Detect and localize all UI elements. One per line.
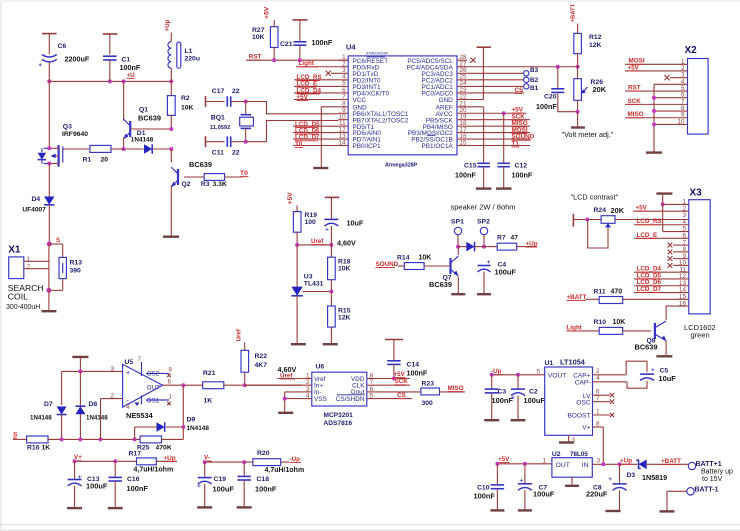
transistor Q7: [429, 247, 458, 295]
svg-text:LCD_E: LCD_E: [637, 232, 658, 239]
svg-text:OUT: OUT: [147, 384, 160, 391]
capacitor C1: [103, 34, 141, 81]
ground (BATT-1): [660, 510, 675, 512]
node Light (pin2): [296, 60, 338, 67]
node CS (pin23): [467, 87, 524, 94]
svg-text:2: 2: [27, 263, 31, 270]
svg-text:R24: R24: [594, 207, 607, 214]
svg-text:X3: X3: [690, 187, 703, 198]
svg-text:VOUT: VOUT: [548, 373, 566, 380]
svg-text:15: 15: [460, 139, 468, 146]
capacitor C12: [497, 113, 532, 188]
U4 pins: [338, 54, 467, 150]
svg-text:+5V: +5V: [628, 64, 640, 71]
ground (C2): [511, 419, 526, 421]
svg-text:OUT: OUT: [556, 462, 570, 469]
transistor Q1: [124, 81, 174, 149]
svg-text:CS: CS: [515, 87, 524, 94]
svg-text:+5V: +5V: [287, 192, 294, 205]
svg-text:100uF: 100uF: [86, 482, 108, 491]
svg-text:390: 390: [70, 268, 82, 275]
svg-text:20K: 20K: [611, 206, 625, 215]
svg-text:U2: U2: [552, 451, 561, 458]
node V+: [73, 454, 137, 463]
svg-text:COIL: COIL: [8, 292, 28, 302]
svg-text:BOOST: BOOST: [567, 413, 590, 420]
ground (C12): [496, 187, 512, 189]
ground (Q7): [451, 293, 465, 295]
svg-text:Q3: Q3: [63, 124, 72, 131]
ground (C18): [237, 506, 252, 508]
wire pin22 GND to bar: [467, 47, 491, 99]
svg-text:100nF: 100nF: [407, 369, 428, 378]
node +5V (U6 pin8): [377, 371, 410, 381]
node +BATT: [661, 458, 681, 465]
svg-text:+: +: [325, 227, 329, 234]
ground (C7): [518, 509, 532, 511]
resistor R11: [567, 289, 689, 304]
node LCD_D6 (X3 pin13): [634, 279, 689, 286]
svg-text:3.3K: 3.3K: [213, 181, 227, 188]
svg-text:1N4148: 1N4148: [187, 425, 210, 432]
ground (C8): [606, 510, 621, 512]
node -Up (R20): [290, 456, 302, 463]
svg-text:C12: C12: [515, 162, 528, 169]
svg-text:+: +: [197, 483, 201, 490]
svg-text:7: 7: [596, 395, 600, 402]
node LCD_D4 (pin6): [294, 87, 338, 94]
node -Up rail to U1: [490, 368, 545, 377]
svg-text:CAP-: CAP-: [575, 380, 591, 387]
capacitor C14: [385, 340, 428, 379]
ground (D8 top): [72, 357, 88, 372]
annotation LCD1602 green: [684, 323, 716, 340]
svg-text:22: 22: [232, 88, 240, 95]
svg-text:+: +: [608, 476, 612, 483]
capacitor C17: [206, 88, 246, 107]
shunt reference U3 TL431: [291, 245, 333, 344]
diode D1: [122, 130, 174, 154]
svg-text:T0: T0: [295, 141, 303, 148]
ground (X3 top): [656, 192, 672, 194]
node LCD_E (pin5): [294, 81, 338, 88]
svg-text:100nF: 100nF: [474, 492, 496, 501]
svg-text:12K: 12K: [338, 315, 351, 322]
svg-text:D7: D7: [44, 401, 53, 408]
svg-text:OS2: OS2: [147, 371, 160, 378]
svg-text:Q1: Q1: [139, 106, 148, 113]
diode (speaker): [458, 242, 484, 252]
wire X3 pin1/pin5 gnd: [661, 194, 689, 232]
svg-text:S: S: [56, 237, 60, 244]
capacitor C19: [197, 462, 234, 507]
wire X3 pin16 to Q8: [666, 306, 689, 320]
svg-text:220uF: 220uF: [586, 490, 608, 499]
svg-text:R1: R1: [83, 156, 92, 163]
ground (Q8): [656, 355, 672, 357]
wire GND pin8: [321, 107, 338, 168]
svg-text:+Up: +Up: [164, 19, 171, 31]
svg-text:C19: C19: [214, 476, 227, 483]
svg-text:VCC: VCC: [353, 97, 367, 104]
resistor R25: [137, 427, 183, 451]
node Uref (4.60V): [295, 238, 356, 247]
X2 pins: [677, 58, 685, 125]
svg-text:+5V: +5V: [264, 6, 271, 19]
wire pin21 AREF to C15: [467, 107, 484, 163]
node SCK (X2 pin7): [625, 98, 688, 105]
svg-text:5: 5: [370, 393, 374, 400]
svg-text:BATT+1: BATT+1: [696, 461, 722, 468]
node V-: [203, 455, 253, 465]
svg-text:+BATT: +BATT: [571, 3, 577, 22]
node RST: [246, 54, 348, 63]
op-amp U5 NE5534: [123, 359, 163, 420]
node B3 (pin26): [467, 67, 539, 76]
svg-text:470K: 470K: [156, 444, 172, 451]
ground (C15): [476, 187, 492, 189]
annotation speaker: [451, 203, 516, 212]
svg-text:2200uF: 2200uF: [65, 54, 90, 63]
svg-text:C2: C2: [529, 389, 538, 396]
node +5V (pin20): [467, 106, 526, 115]
svg-text:T1: T1: [512, 140, 520, 147]
node T0: [240, 170, 248, 177]
no-connect pin3: [326, 71, 339, 76]
svg-text:1: 1: [27, 256, 31, 263]
svg-text:speaker 2W / 8ohm: speaker 2W / 8ohm: [451, 203, 516, 212]
svg-text:Battery up: Battery up: [701, 469, 733, 476]
svg-text:SCK: SCK: [395, 378, 409, 385]
svg-text:R27: R27: [252, 27, 265, 34]
svg-text:IN: IN: [582, 462, 589, 469]
svg-text:4K7: 4K7: [255, 362, 268, 369]
wire +U rail: [47, 79, 173, 83]
wire X2 gnd pins 4,6,8,10: [652, 84, 688, 152]
wire pin27 to voltmeter: [467, 65, 580, 69]
svg-text:100uF: 100uF: [524, 396, 546, 405]
node MOSI (X2 pin1): [625, 58, 688, 65]
svg-text:"LCD contrast": "LCD contrast": [571, 193, 619, 202]
node MISO (pin18): [467, 120, 530, 127]
capacitor C13: [68, 461, 108, 508]
no-connect X2 pin3: [664, 75, 687, 80]
svg-text:ADS7816: ADS7816: [324, 420, 353, 427]
svg-text:R2: R2: [181, 95, 190, 102]
svg-text:X1: X1: [8, 245, 21, 256]
svg-text:4: 4: [306, 393, 310, 400]
regulator U2 78L05: [542, 451, 600, 477]
svg-text:20K: 20K: [593, 85, 607, 94]
svg-text:LT1054: LT1054: [560, 358, 586, 367]
ground (C4): [477, 293, 491, 295]
diode D8: [75, 371, 108, 439]
X3 pins: [679, 199, 687, 308]
svg-text:BC639: BC639: [138, 113, 161, 122]
svg-text:22: 22: [460, 93, 468, 100]
U1 OSC pin7 no-connect: [593, 395, 615, 404]
ground (C3): [484, 419, 499, 421]
capacitor C4: [478, 259, 517, 294]
svg-text:U1: U1: [545, 360, 554, 367]
svg-text:R21: R21: [203, 370, 216, 377]
diode D3 1N5819 schottky: [627, 460, 689, 483]
svg-text:100nF: 100nF: [512, 170, 533, 179]
node Uref (U6 pin1): [277, 365, 302, 379]
svg-text:GND: GND: [439, 97, 454, 104]
node LCD_E (X3 pin6): [634, 232, 689, 239]
svg-text:SOUND: SOUND: [376, 261, 399, 268]
svg-text:Light: Light: [567, 324, 583, 331]
svg-text:78L05: 78L05: [570, 451, 588, 458]
svg-text:2: 2: [596, 368, 600, 375]
svg-text:+5V: +5V: [636, 204, 648, 211]
svg-text:300-400uH: 300-400uH: [6, 304, 40, 311]
node +5V (pin7): [294, 94, 338, 101]
resistor R17: [129, 451, 178, 474]
resistor R14: [376, 255, 451, 270]
U5 pin2 wire: [101, 393, 123, 440]
svg-text:SCK: SCK: [628, 98, 642, 105]
svg-text:R22: R22: [255, 353, 268, 360]
svg-text:B1: B1: [530, 85, 539, 92]
node LCD_RS (X3 pin4): [634, 218, 689, 225]
svg-text:10uF: 10uF: [659, 374, 677, 383]
node LCD_D6 (pin12): [293, 128, 338, 135]
svg-text:12K: 12K: [589, 42, 602, 49]
svg-text:C14: C14: [407, 362, 420, 369]
svg-text:+Up: +Up: [526, 240, 538, 247]
ground (R26): [571, 112, 585, 128]
node LCD_D5 (X3 pin12): [634, 272, 689, 279]
svg-text:4: 4: [596, 375, 600, 382]
svg-text:+5V: +5V: [394, 371, 406, 378]
capacitor C18: [237, 462, 276, 507]
no-connect pin28: [470, 58, 475, 63]
node LCD_D4 (X3 pin11): [634, 266, 689, 273]
svg-text:MISO: MISO: [628, 111, 644, 118]
U5 pin7 stub: [138, 357, 142, 376]
svg-text:C10: C10: [477, 484, 490, 491]
transistor Q3 (P-MOSFET): [38, 81, 89, 166]
svg-text:7: 7: [342, 93, 346, 100]
U1 pin5: [537, 369, 541, 376]
transistor Q8: [635, 321, 667, 356]
charge pump U1 LT1054: [545, 358, 593, 436]
connector X2: [685, 45, 709, 134]
wire In-/VSS to ground: [283, 392, 303, 413]
svg-text:D3: D3: [627, 472, 636, 479]
node MOSI (pin17): [467, 127, 530, 134]
terminal BATT+1: [688, 461, 721, 470]
ground (Q2): [163, 235, 179, 237]
capacitor C21: [280, 20, 333, 60]
node S (coil node): [47, 237, 60, 247]
diode D4: [22, 164, 54, 245]
svg-text:2: 2: [110, 393, 114, 400]
capacitor C11: [206, 136, 246, 156]
inductor L1: [164, 19, 200, 81]
svg-text:RST: RST: [628, 84, 641, 91]
svg-text:47: 47: [511, 234, 519, 241]
op-amp U4 (ATmega328P MCU): [346, 43, 457, 169]
svg-text:100uF: 100uF: [533, 490, 555, 499]
svg-text:VSS: VSS: [314, 396, 327, 403]
svg-text:BQ1: BQ1: [211, 115, 225, 122]
node +U label: [127, 72, 136, 79]
svg-text:TL431: TL431: [304, 280, 324, 287]
svg-text:R7: R7: [497, 234, 506, 241]
transistor Q2: [171, 149, 178, 187]
svg-text:MISO: MISO: [448, 385, 464, 392]
svg-text:MCP3201: MCP3201: [324, 412, 354, 419]
resistor R2: [167, 81, 193, 129]
svg-text:B2: B2: [530, 77, 539, 84]
svg-text:10K: 10K: [252, 34, 265, 41]
resistor R27: [252, 6, 278, 60]
U5 pin1 OS1 stub: [146, 394, 173, 405]
capacitor C2: [511, 375, 545, 420]
svg-text:100nF: 100nF: [536, 102, 557, 111]
capacitor C7: [518, 464, 555, 511]
capacitor 10uF: [324, 197, 363, 245]
node LCD_D7 (pin13): [293, 134, 338, 141]
svg-text:3: 3: [597, 457, 601, 464]
resistor R23: [377, 381, 465, 407]
svg-text:R18: R18: [338, 259, 351, 266]
svg-text:R13: R13: [70, 259, 83, 266]
svg-text:+Up: +Up: [164, 455, 176, 462]
resistor R1: [64, 145, 124, 163]
connector X3: [689, 187, 710, 314]
wire opamp out to In+: [245, 384, 303, 386]
svg-text:R10: R10: [594, 319, 607, 326]
node MISO (U6 pin6): [448, 385, 464, 392]
svg-text:NE5534: NE5534: [126, 411, 154, 420]
annotation volt meter adj: [562, 130, 614, 139]
resistor R19: [287, 192, 317, 245]
svg-text:100nF: 100nF: [312, 38, 333, 47]
svg-text:1N4148: 1N4148: [30, 414, 52, 421]
svg-text:+Up: +Up: [620, 458, 632, 465]
svg-text:C17: C17: [212, 88, 225, 95]
svg-text:-: -: [126, 395, 129, 404]
svg-text:+BATT: +BATT: [567, 294, 587, 301]
svg-text:C15: C15: [464, 162, 477, 169]
svg-text:1N4148: 1N4148: [86, 414, 108, 421]
svg-text:10K: 10K: [338, 266, 351, 273]
svg-text:470: 470: [611, 289, 623, 296]
U5 pin4 stub: [126, 396, 141, 412]
capacitor C5 with loop: [593, 361, 677, 388]
svg-text:PB1/OC1A: PB1/OC1A: [422, 143, 454, 150]
svg-text:+: +: [126, 370, 130, 377]
ground (U3): [291, 343, 306, 345]
svg-text:R23: R23: [422, 381, 435, 388]
svg-text:CAP+: CAP+: [573, 373, 591, 380]
svg-text:SP1: SP1: [451, 219, 464, 226]
ground (C16): [108, 507, 123, 509]
svg-text:BC639: BC639: [635, 343, 658, 352]
U2 ground pin2: [565, 477, 579, 486]
U5 pin8 OS2 stub: [146, 367, 173, 377]
svg-text:U4: U4: [346, 43, 356, 52]
node T1 (pin15): [467, 140, 530, 147]
U5 pin3 wire: [110, 366, 114, 373]
svg-text:+: +: [651, 367, 655, 374]
capacitor C15: [455, 162, 490, 188]
potentiometer R26: [574, 67, 607, 114]
svg-text:X2: X2: [685, 45, 698, 56]
wire XTAL2: [244, 121, 339, 144]
node T0 (pin14): [293, 141, 338, 148]
svg-text:SP2: SP2: [477, 219, 490, 226]
resistor R20: [253, 450, 304, 474]
U1 BOOST pin1 no-connect: [593, 408, 615, 417]
node +Up (speaker): [526, 240, 538, 247]
node LCD_RS (pin4): [294, 74, 338, 81]
svg-text:U3: U3: [304, 273, 313, 280]
svg-text:C21: C21: [280, 41, 293, 48]
svg-text:R12: R12: [589, 34, 602, 41]
svg-text:D9: D9: [187, 417, 196, 424]
svg-text:R17: R17: [129, 451, 142, 458]
svg-text:CS/SHDN: CS/SHDN: [336, 396, 365, 403]
svg-text:-Up: -Up: [290, 456, 301, 463]
node MISO (X2 pin9): [625, 111, 688, 118]
svg-text:Atmega328P: Atmega328P: [385, 162, 418, 168]
svg-text:6: 6: [168, 379, 172, 386]
resistor R21: [203, 370, 303, 405]
node SOUND (pin16): [467, 134, 535, 141]
svg-text:4,7uH/1ohm: 4,7uH/1ohm: [265, 467, 305, 474]
svg-text:ATMEGA328P: ATMEGA328P: [366, 51, 389, 55]
node LCD_D5 (pin11): [293, 121, 338, 128]
node SCK (pin19): [467, 114, 530, 121]
svg-text:+: +: [38, 62, 42, 69]
node B1 (pin24): [467, 84, 539, 92]
svg-text:100uF: 100uF: [495, 267, 517, 276]
svg-text:C11: C11: [212, 149, 224, 156]
svg-text:C3: C3: [498, 389, 507, 396]
resistor R7: [484, 234, 537, 250]
node +5V (X3 pin2): [633, 204, 689, 211]
svg-text:Uref: Uref: [311, 238, 324, 245]
svg-text:PB0/ICP1: PB0/ICP1: [353, 143, 382, 150]
svg-text:3: 3: [110, 366, 114, 373]
svg-text:R15: R15: [338, 308, 351, 315]
node +Up (R17): [164, 455, 176, 462]
svg-text:IRF9640: IRF9640: [62, 131, 88, 138]
svg-text:CS: CS: [397, 392, 406, 399]
svg-text:1N5819: 1N5819: [642, 473, 667, 482]
svg-text:+: +: [511, 395, 515, 402]
ground (U6): [278, 412, 293, 414]
wire Q2 emitter to ground: [170, 185, 172, 236]
svg-text:green: green: [691, 331, 710, 340]
svg-text:R11: R11: [594, 289, 606, 296]
capacitor C3: [485, 375, 514, 420]
wire XTAL1: [244, 100, 339, 114]
svg-text:100nF: 100nF: [455, 170, 476, 179]
capacitor C10: [474, 464, 505, 511]
svg-text:8: 8: [596, 420, 600, 427]
svg-text:LCD_RS: LCD_RS: [637, 218, 662, 225]
svg-text:D8: D8: [89, 401, 98, 408]
svg-text:1N4148: 1N4148: [131, 136, 154, 143]
svg-text:20: 20: [101, 156, 109, 163]
svg-text:C6: C6: [58, 43, 67, 50]
